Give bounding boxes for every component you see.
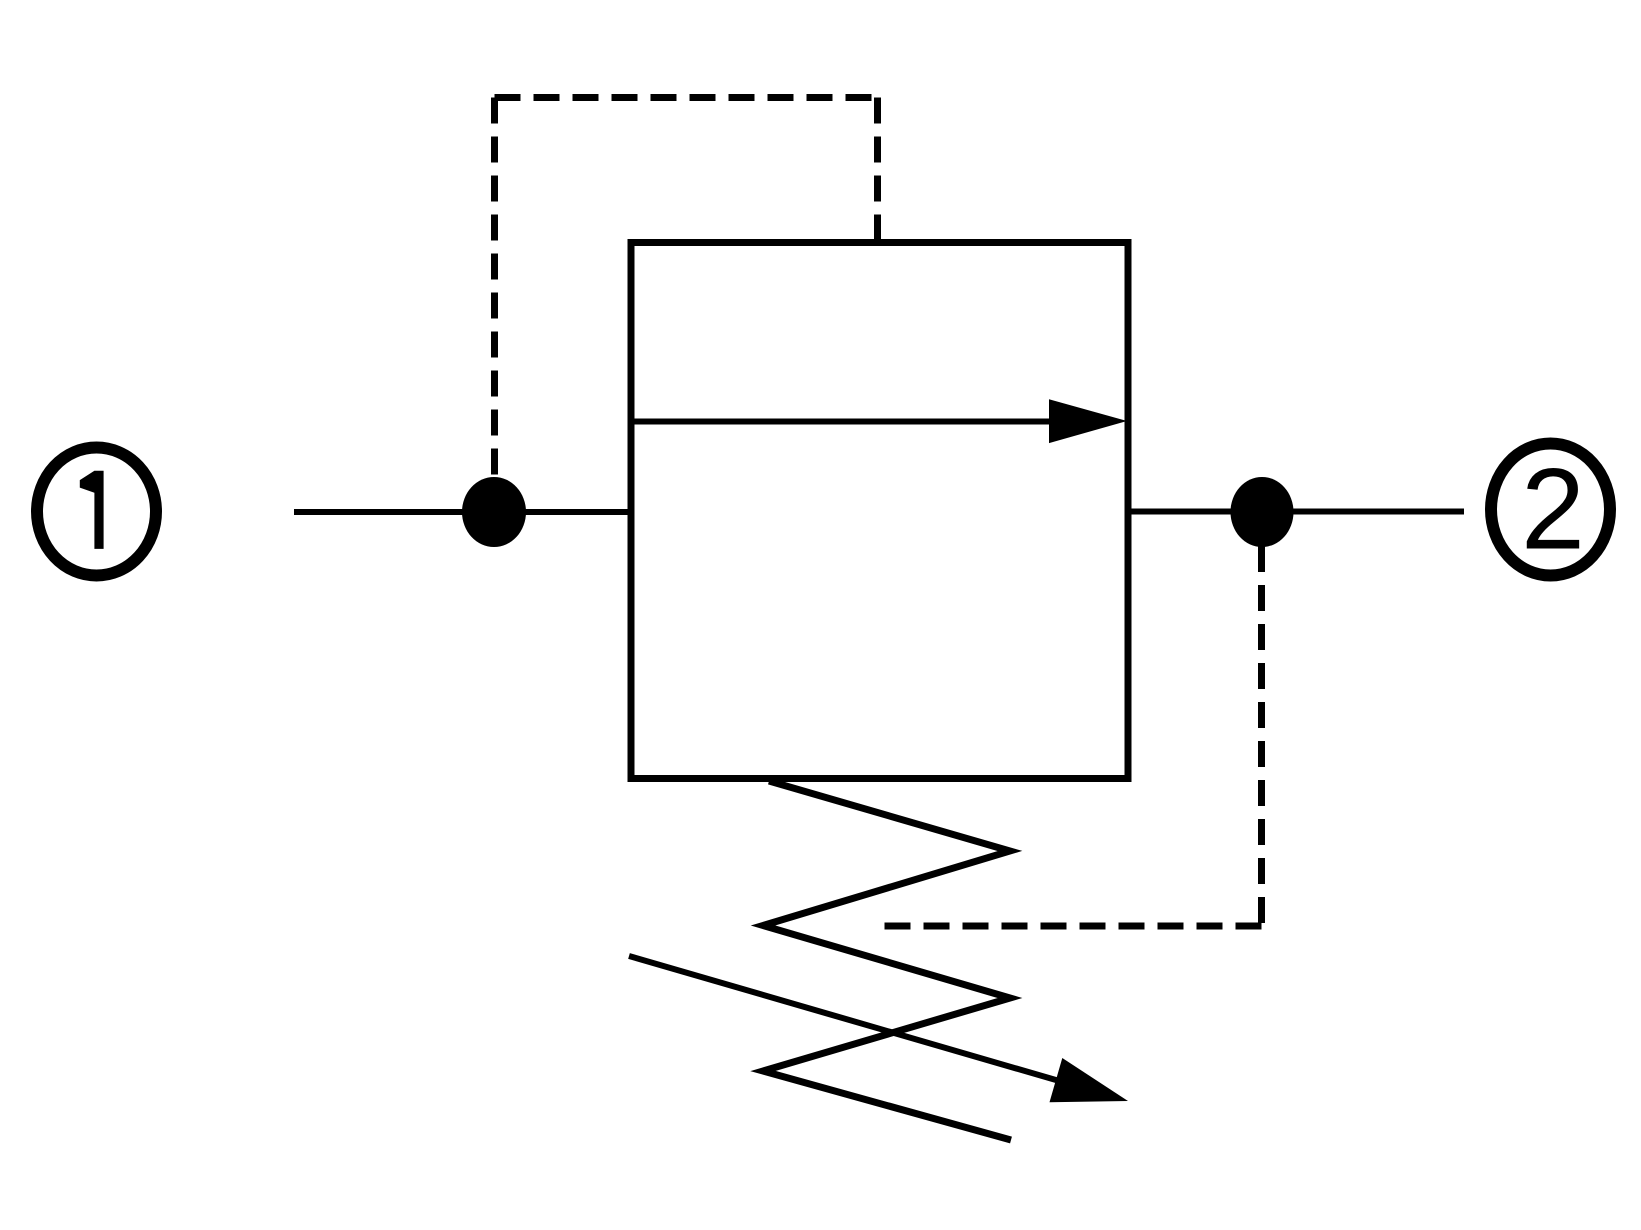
wire from port 1 to valve	[294, 509, 628, 515]
pilot dashed wire node B down	[1258, 546, 1265, 926]
node A junction dot	[462, 477, 526, 547]
wire from valve to port 2	[1129, 509, 1464, 515]
port label 1	[80, 471, 104, 549]
adjustment arrow shaft	[629, 956, 1080, 1087]
port circle 1	[37, 448, 156, 576]
spring	[763, 781, 1011, 1140]
adjustment arrow head	[1050, 1058, 1129, 1102]
flow arrow shaft	[631, 419, 1055, 425]
pilot dashed wire bottom horizontal	[884, 923, 1262, 930]
svg-text:2: 2	[1521, 446, 1585, 574]
pilot dashed wire down to valve top	[874, 98, 881, 240]
pilot dashed wire node A up	[491, 98, 498, 479]
valve body box	[631, 243, 1128, 779]
port circle 2	[1491, 444, 1610, 576]
node B junction dot	[1231, 477, 1294, 547]
pilot dashed wire top horizontal	[495, 94, 878, 101]
flow arrow head	[1049, 399, 1127, 443]
